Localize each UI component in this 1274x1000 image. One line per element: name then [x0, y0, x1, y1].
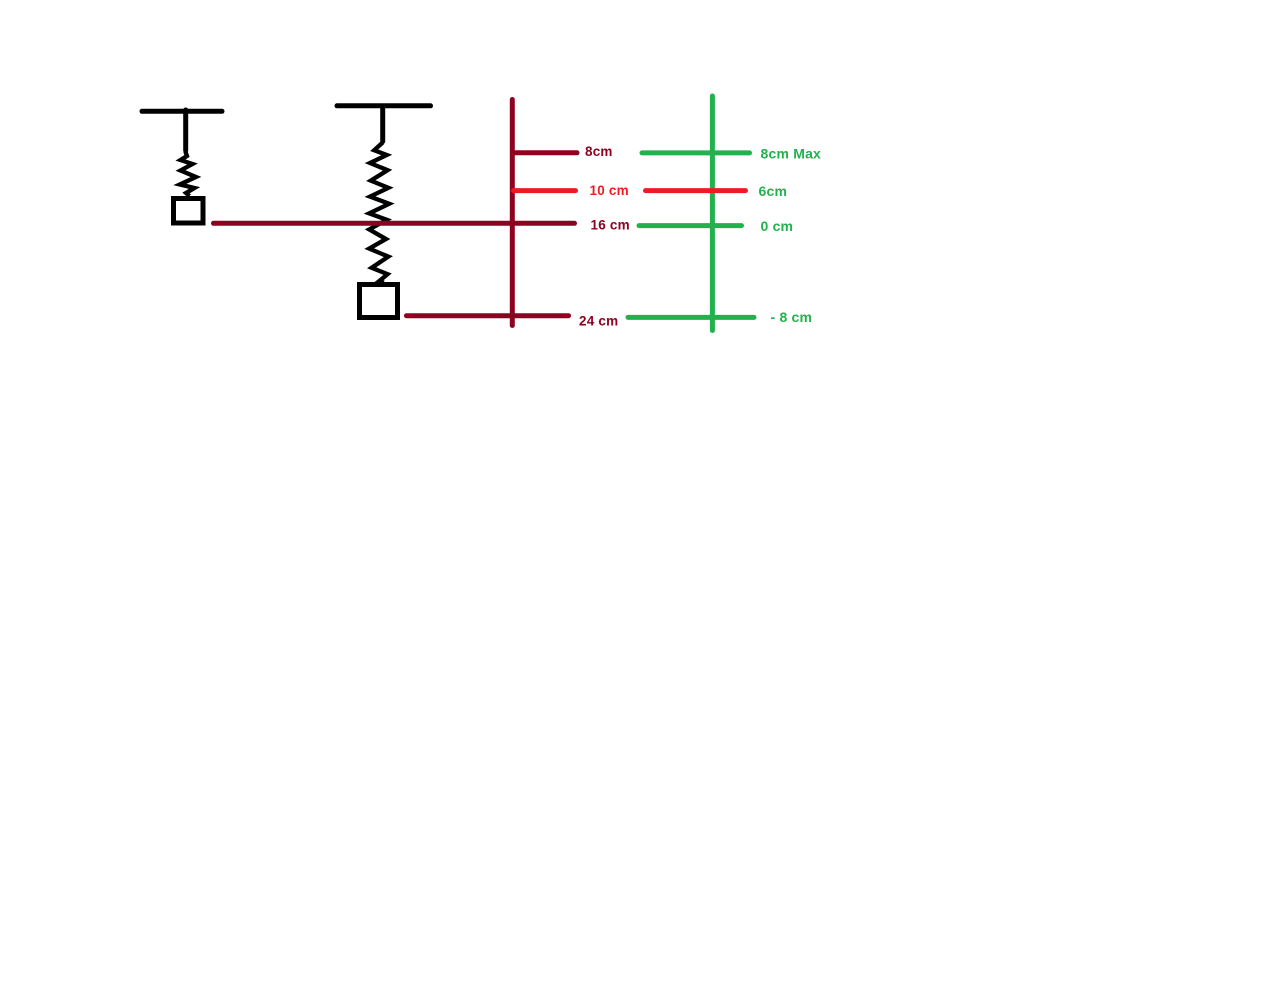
- 8cm Max tick (green): [642, 150, 750, 155]
- svg-text:16 cm: 16 cm: [591, 217, 630, 232]
- hanger rod 1: [183, 110, 188, 151]
- hanger rod 2: [380, 108, 385, 142]
- spring K1: [180, 152, 196, 197]
- svg-text:8cm: 8cm: [585, 144, 613, 159]
- mass M1: [174, 199, 204, 224]
- svg-text:10 cm: 10 cm: [590, 183, 629, 198]
- -8 cm tick (green): [628, 315, 754, 320]
- spring K2: [369, 143, 389, 283]
- svg-text:0 cm: 0 cm: [761, 218, 794, 234]
- 24 cm line (dark red): [407, 313, 569, 318]
- 10 cm red line, left segment: [514, 188, 576, 193]
- svg-text:24 cm: 24 cm: [579, 314, 618, 329]
- svg-text:- 8 cm: - 8 cm: [771, 309, 813, 325]
- mass M2: [360, 285, 398, 318]
- green scale axis: [710, 96, 715, 331]
- 0 cm tick (green): [639, 223, 742, 228]
- ceiling support 1: [142, 109, 222, 114]
- 10 cm / 6cm red line, right segment: [646, 188, 746, 193]
- ceiling support 2: [337, 103, 431, 108]
- 16 cm reference line (dark red, long): [214, 221, 575, 226]
- svg-text:6cm: 6cm: [759, 183, 788, 199]
- 8cm tick (dark red): [515, 150, 577, 155]
- svg-text:8cm Max: 8cm Max: [761, 145, 822, 161]
- dark red scale axis: [510, 100, 515, 326]
